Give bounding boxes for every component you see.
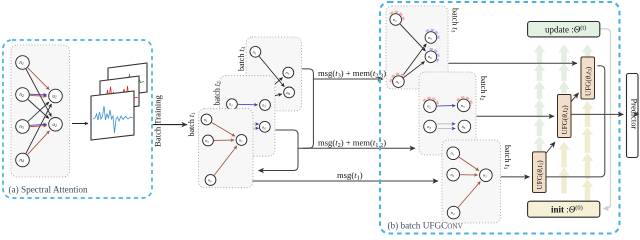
svg-text:(a) Spectral Attention: (a) Spectral Attention — [9, 185, 88, 195]
svg-text:batch t3: batch t3 — [237, 46, 247, 71]
svg-text:(b) batch UFGCONV: (b) batch UFGCONV — [388, 221, 464, 231]
svg-text:update :Θ(t): update :Θ(t) — [545, 25, 586, 35]
svg-text:Batch Training: Batch Training — [153, 94, 163, 147]
svg-text:batch t1: batch t1 — [187, 112, 197, 137]
svg-text:batch t2: batch t2 — [478, 76, 488, 101]
svg-text:Predictor: Predictor — [630, 99, 639, 130]
svg-text:batch t2: batch t2 — [213, 81, 223, 106]
svg-text:batch t3: batch t3 — [450, 8, 460, 33]
svg-text:msg(t1): msg(t1) — [337, 170, 363, 182]
svg-text:batch t1: batch t1 — [502, 145, 512, 170]
